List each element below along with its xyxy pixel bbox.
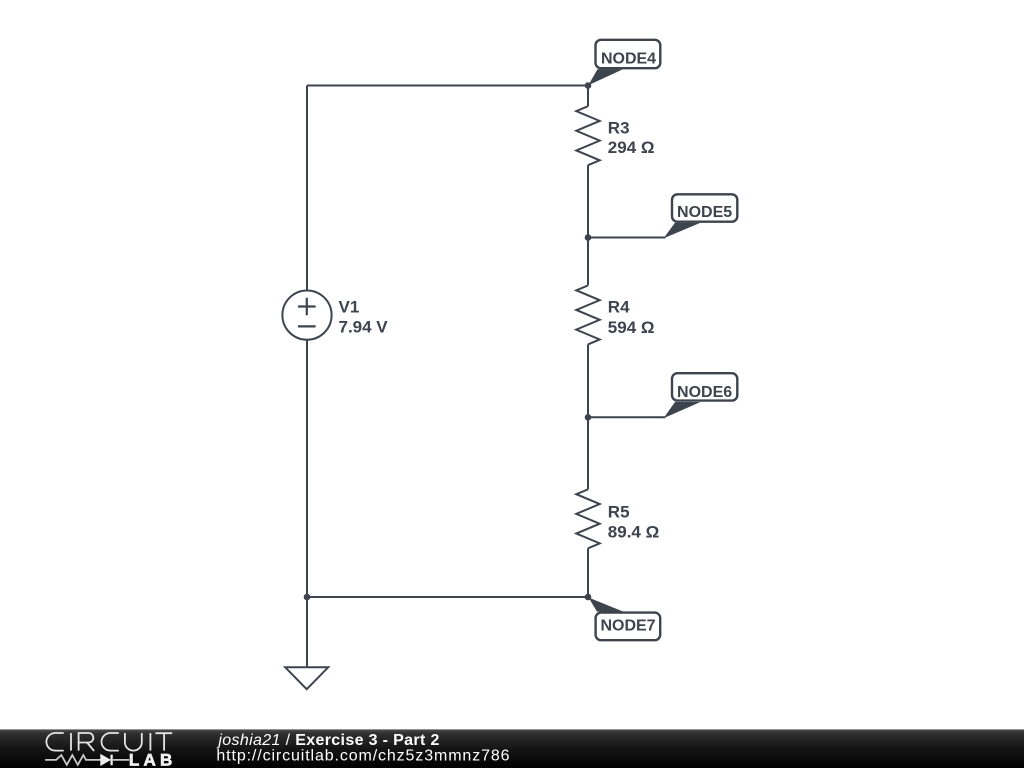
svg-text:http://circuitlab.com/chz5z3mm: http://circuitlab.com/chz5z3mmnz786 bbox=[216, 748, 510, 765]
wire right segment R3 to node5 bbox=[587, 165, 589, 237]
svg-text:LAB: LAB bbox=[129, 751, 177, 768]
wire right segment node5 to R4 bbox=[587, 238, 589, 286]
node NODE5 flag bbox=[588, 194, 737, 238]
voltage source V1 bbox=[282, 291, 331, 340]
resistor R4 bbox=[576, 285, 599, 344]
CircuitLab logo resistor-diode symbol bbox=[45, 755, 129, 766]
resistor R5 bbox=[576, 489, 599, 548]
wire left vertical upper (to V1 top) bbox=[306, 86, 308, 291]
svg-text:7.94 V: 7.94 V bbox=[339, 318, 389, 337]
junction node6 bbox=[585, 414, 592, 421]
resistor R3 bbox=[576, 106, 599, 165]
node NODE6 flag bbox=[588, 373, 737, 418]
ground bbox=[285, 667, 328, 689]
svg-text:R4: R4 bbox=[608, 298, 630, 317]
wire right segment R5 to node7 bbox=[587, 548, 589, 597]
svg-text:NODE4: NODE4 bbox=[601, 51, 656, 68]
svg-text:joshia21 / Exercise 3 - Part 2: joshia21 / Exercise 3 - Part 2 bbox=[216, 732, 439, 749]
CircuitLab logo CIRCUIT wordmark bbox=[46, 733, 172, 751]
footer bar bbox=[0, 729, 1024, 768]
svg-text:294 Ω: 294 Ω bbox=[608, 138, 655, 157]
node NODE4 flag bbox=[588, 40, 660, 86]
svg-text:R3: R3 bbox=[608, 118, 630, 137]
node NODE7 flag bbox=[589, 598, 661, 641]
svg-text:NODE7: NODE7 bbox=[600, 617, 655, 634]
wire bottom horizontal bbox=[307, 596, 588, 598]
junction bottom-left bbox=[304, 594, 311, 601]
svg-text:V1: V1 bbox=[339, 298, 360, 317]
svg-text:594 Ω: 594 Ω bbox=[608, 318, 655, 337]
wire right segment node4 to R3 bbox=[587, 86, 589, 107]
svg-text:NODE5: NODE5 bbox=[677, 204, 732, 221]
wire right segment node6 to R5 bbox=[587, 417, 589, 489]
svg-text:NODE6: NODE6 bbox=[677, 384, 732, 401]
wire right segment R4 to node6 bbox=[587, 344, 589, 417]
svg-text:R5: R5 bbox=[608, 503, 630, 522]
junction node7 bbox=[585, 594, 592, 601]
wire left vertical lower (V1 bottom to bottom wire) bbox=[306, 340, 308, 597]
wire to ground bbox=[306, 597, 308, 667]
junction node5 bbox=[585, 234, 592, 241]
wire top horizontal bbox=[307, 85, 588, 87]
svg-text:89.4 Ω: 89.4 Ω bbox=[608, 523, 659, 542]
junction node4 bbox=[585, 82, 592, 89]
